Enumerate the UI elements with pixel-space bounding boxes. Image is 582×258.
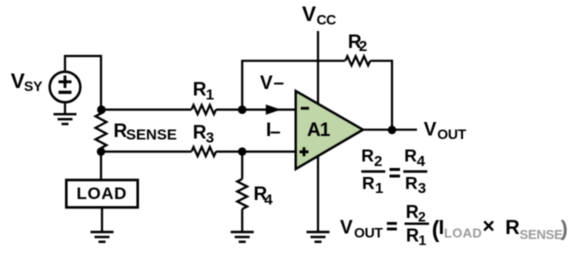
svg-text:SENSE: SENSE [126, 126, 177, 143]
resistor R2 [345, 56, 370, 65]
svg-text:R: R [406, 202, 419, 222]
svg-text:R: R [193, 123, 207, 144]
svg-text:SENSE: SENSE [520, 227, 564, 242]
svg-text:A1: A1 [307, 120, 331, 141]
node junction dot I- [238, 147, 246, 155]
svg-text:–: – [270, 122, 281, 143]
svg-text:R: R [193, 80, 207, 101]
ground op-amp [307, 232, 330, 242]
wire VCC supply [317, 31, 319, 105]
node junction dot V- [238, 105, 247, 114]
ground LOAD [91, 232, 114, 242]
svg-text:OUT: OUT [354, 225, 383, 241]
wire VSY bottom [64, 102, 66, 113]
svg-text:V: V [340, 218, 353, 239]
minus bar inside source [59, 91, 72, 94]
svg-text:1: 1 [419, 232, 427, 248]
ground VSY [54, 114, 77, 124]
wire R4 branch [241, 152, 243, 231]
resistor R3 [192, 147, 216, 156]
wire VSY top to rail [65, 56, 101, 115]
wire rail to LOAD [100, 148, 102, 180]
equation2 VOUT = R2/R1 (ILOAD x RSENSE) [340, 202, 568, 248]
svg-text:–: – [274, 73, 285, 94]
op-amp A1 [296, 91, 363, 169]
svg-text:V: V [11, 70, 25, 93]
arrowhead V- input [266, 105, 281, 115]
svg-text:SY: SY [24, 78, 43, 94]
svg-text:2: 2 [374, 153, 382, 170]
wire bottom horizontal (I- path) [101, 151, 296, 153]
svg-text:4: 4 [417, 153, 426, 170]
svg-text:R: R [362, 173, 375, 193]
svg-text:×: × [483, 215, 495, 238]
wire op-amp to ground [317, 156, 319, 232]
node junction dot output [388, 126, 396, 134]
voltage source VSY circle [50, 72, 81, 103]
svg-text:R: R [361, 146, 374, 166]
svg-text:R: R [406, 226, 419, 246]
resistor R1 [192, 105, 216, 114]
svg-text:R: R [505, 217, 520, 239]
svg-text:CC: CC [317, 12, 337, 28]
svg-text:V: V [424, 120, 437, 141]
svg-text:4: 4 [264, 192, 273, 209]
svg-text:2: 2 [359, 38, 367, 55]
svg-text:OUT: OUT [437, 126, 466, 142]
resistor R4 [237, 179, 247, 209]
svg-text:LOAD: LOAD [444, 226, 482, 241]
node junction dot VSY-R1 [97, 105, 106, 114]
svg-text:3: 3 [418, 180, 426, 197]
wire output [363, 129, 417, 131]
wire LOAD to ground [101, 208, 103, 232]
op-amp plus pin mark [300, 147, 309, 156]
svg-text:1: 1 [375, 180, 383, 197]
svg-text:3: 3 [206, 130, 214, 147]
svg-text:LOAD: LOAD [77, 184, 128, 203]
svg-text:): ) [561, 218, 568, 241]
wire feedback loop [242, 61, 392, 130]
svg-text:2: 2 [418, 209, 426, 225]
svg-text:V: V [302, 3, 316, 26]
svg-text:1: 1 [206, 87, 214, 104]
wire top horizontal (V- path) [101, 108, 296, 110]
svg-text:R: R [404, 146, 417, 166]
equation1 R2/R1 = R4/R3 [361, 146, 427, 198]
plus sign inside source [59, 76, 72, 89]
svg-text:R: R [405, 173, 418, 193]
LOAD box [66, 180, 137, 207]
svg-text:V: V [260, 73, 273, 94]
node junction dot VSY-R3 [97, 147, 105, 155]
op-amp minus pin mark [301, 107, 309, 110]
resistor RSENSE [96, 113, 107, 148]
ground R4 [231, 232, 254, 242]
